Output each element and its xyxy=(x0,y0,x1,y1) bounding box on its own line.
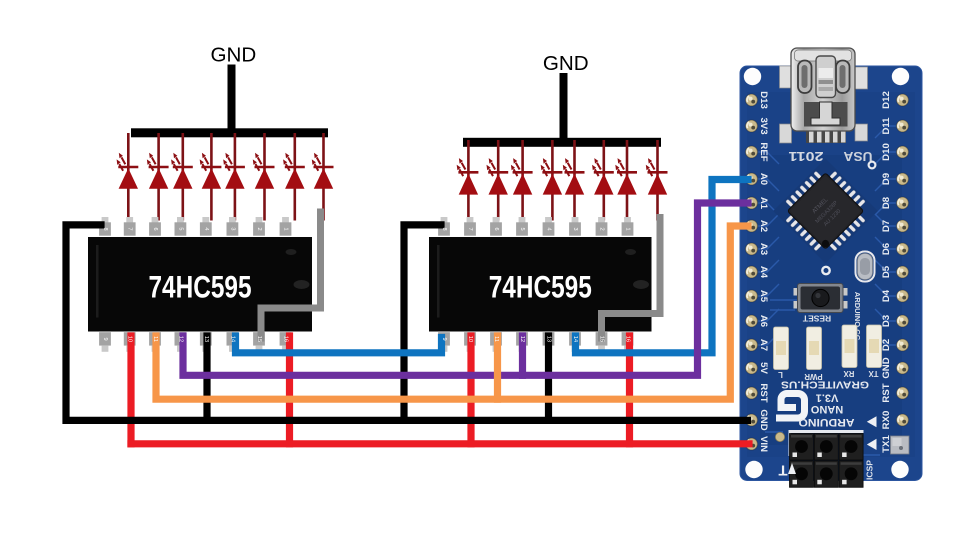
Arduino pad D9 (right) xyxy=(896,172,909,185)
Arduino pad A4 xyxy=(745,265,758,278)
svg-text:D6: D6 xyxy=(881,243,892,255)
svg-text:D13: D13 xyxy=(758,91,769,109)
svg-text:15: 15 xyxy=(256,336,262,342)
svg-text:5: 5 xyxy=(177,227,183,230)
svg-text:RESET: RESET xyxy=(802,314,831,324)
U2 pin 13 (bottom) xyxy=(543,332,555,352)
U2 pin 16 (bottom) xyxy=(622,332,634,352)
LED D14 xyxy=(592,140,614,221)
Arduino mounting hole xyxy=(891,461,908,478)
Arduino pad GND (right) xyxy=(896,361,909,374)
svg-text:D4: D4 xyxy=(881,289,892,302)
indicator component RX xyxy=(842,325,857,368)
wire: latch bus U1 pin 12 to Arduino A1 xyxy=(183,203,748,375)
wire: V+ bus to Arduino VIN xyxy=(131,440,749,447)
svg-text:USA: USA xyxy=(844,149,873,163)
U1 pin 9 (bottom) xyxy=(99,332,111,352)
svg-text:T: T xyxy=(778,462,787,479)
svg-text:VIN: VIN xyxy=(758,436,769,452)
wire: GND stem xyxy=(560,73,568,143)
indicator component L xyxy=(774,327,789,370)
ICSP pin 3 xyxy=(839,434,863,461)
svg-text:74HC595: 74HC595 xyxy=(149,269,252,305)
svg-text:GRAVITECH.US: GRAVITECH.US xyxy=(781,379,869,390)
ICSP pin 4 xyxy=(790,461,814,488)
svg-text:11: 11 xyxy=(152,336,158,342)
svg-text:D12: D12 xyxy=(881,91,892,109)
svg-text:5: 5 xyxy=(519,227,525,230)
U2 pin 9 (bottom) xyxy=(438,332,450,352)
svg-text:D11: D11 xyxy=(881,117,892,135)
svg-text:4: 4 xyxy=(203,227,209,230)
LED D10 xyxy=(487,140,509,221)
Arduino pad REF xyxy=(745,145,758,158)
wire: U1 QH (LED8) to U1 pin 15 xyxy=(261,212,321,338)
wire: U2 QH (LED8) to U2 pin 15 xyxy=(602,218,661,339)
via near chip xyxy=(869,162,876,169)
Arduino mounting hole xyxy=(745,461,762,478)
ICSP pin 1 xyxy=(790,434,814,461)
svg-text:A6: A6 xyxy=(758,315,769,327)
Arduino mounting hole xyxy=(892,68,909,85)
indicator component TX xyxy=(867,325,882,368)
LED D6 xyxy=(253,133,275,221)
svg-text:ICSP: ICSP xyxy=(865,460,875,480)
LED D8 xyxy=(312,133,334,221)
via below chip xyxy=(822,267,829,274)
U2 pin 8 (top) xyxy=(438,217,450,236)
wire: GND stem xyxy=(228,65,236,134)
svg-text:1: 1 xyxy=(625,227,631,230)
svg-text:ARDUINO: ARDUINO xyxy=(798,416,854,428)
Arduino pad D10 (right) xyxy=(896,145,909,158)
svg-text:REF: REF xyxy=(758,142,769,161)
svg-text:8: 8 xyxy=(441,227,447,230)
svg-text:1: 1 xyxy=(283,227,289,230)
svg-text:A5: A5 xyxy=(758,290,769,303)
svg-text:2: 2 xyxy=(599,227,605,230)
Gravitech G logo xyxy=(780,394,805,419)
Arduino pad A0 xyxy=(745,172,758,185)
Arduino pad D3 (right) xyxy=(896,314,909,327)
svg-text:10: 10 xyxy=(467,336,473,342)
svg-text:10: 10 xyxy=(127,336,133,342)
svg-text:12: 12 xyxy=(177,336,183,342)
wire: U1 pin 16 VCC drop xyxy=(127,336,134,444)
Arduino mounting hole xyxy=(744,68,761,85)
svg-text:2: 2 xyxy=(256,227,262,230)
U2 pin 4 (top) xyxy=(543,217,555,236)
wire: U1 pin 14 to U2 pin 9 (cascade) xyxy=(236,336,442,353)
Arduino pad 5V xyxy=(745,361,758,374)
MCU ATmega328 chip xyxy=(773,159,878,264)
crystal oscillator xyxy=(856,252,875,282)
U2 pin 10 (bottom) xyxy=(464,332,476,352)
svg-text:12: 12 xyxy=(519,336,525,342)
U1 pin 1 (top) xyxy=(280,217,292,236)
svg-text:7: 7 xyxy=(127,227,133,230)
svg-text:9: 9 xyxy=(441,337,447,340)
LED D7 xyxy=(283,133,305,221)
Arduino pad D12 (right) xyxy=(896,93,909,106)
LED D15 xyxy=(615,140,637,221)
svg-text:D2: D2 xyxy=(881,339,892,351)
U1 pin 13 (bottom) xyxy=(200,332,212,352)
ICSP pin 6 xyxy=(839,461,863,488)
svg-text:9: 9 xyxy=(102,337,108,340)
Arduino pad D6 (right) xyxy=(896,242,909,255)
IC U2 74HC595 body xyxy=(429,237,652,332)
U2 pin 12 (bottom) xyxy=(516,332,528,352)
U2 pin 14 (bottom) xyxy=(569,332,581,352)
svg-text:14: 14 xyxy=(229,336,235,342)
svg-text:16: 16 xyxy=(283,336,289,342)
wire: U2 pin 12 branch xyxy=(519,336,526,375)
LED D2 xyxy=(147,133,169,221)
U1 pin 7 (top) xyxy=(124,217,136,236)
svg-text:3V3: 3V3 xyxy=(758,117,769,134)
ICSP header outline xyxy=(789,430,864,433)
svg-text:GND: GND xyxy=(211,44,257,67)
U2 pin 7 (top) xyxy=(464,217,476,236)
svg-text:A2: A2 xyxy=(758,220,769,232)
Arduino pad VIN xyxy=(745,437,758,450)
wire: U2 pin 8 GND elbow xyxy=(404,225,441,421)
svg-text:A0: A0 xyxy=(758,173,769,185)
svg-text:GND: GND xyxy=(881,357,892,378)
PCB traces xyxy=(757,126,897,455)
wire: U1 pin 8 GND elbow + bus to Arduino GND xyxy=(66,225,748,421)
Arduino pad TX1 (right) xyxy=(896,437,909,450)
wire: U1 pin 10 drop xyxy=(286,336,293,444)
marker triangle TX xyxy=(867,439,877,450)
indicator component PWR xyxy=(807,327,822,370)
mini-USB connector xyxy=(780,48,868,143)
svg-text:6: 6 xyxy=(493,227,499,230)
svg-text:3: 3 xyxy=(229,227,235,230)
svg-text:D8: D8 xyxy=(881,196,892,209)
Arduino pad RX0 (right) xyxy=(896,413,909,426)
svg-text:RST: RST xyxy=(881,383,892,402)
svg-text:D5: D5 xyxy=(881,265,892,278)
U1 pin 5 (top) xyxy=(175,217,187,236)
svg-text:GND: GND xyxy=(543,52,589,75)
svg-text:TX: TX xyxy=(868,369,879,378)
Arduino pad A2 xyxy=(745,219,758,232)
U2 pin 3 (top) xyxy=(569,217,581,236)
svg-text:6: 6 xyxy=(152,227,158,230)
U1 pin 8 (top) xyxy=(99,217,111,236)
Arduino pad A7 xyxy=(745,338,758,351)
LED D1 xyxy=(117,133,139,221)
svg-text:NANO: NANO xyxy=(810,403,843,415)
svg-text:RST: RST xyxy=(758,383,769,402)
Arduino pad D2 (right) xyxy=(896,338,909,351)
U1 pin 11 (bottom) xyxy=(149,332,161,352)
LED D16 xyxy=(646,140,668,221)
Arduino pad A6 xyxy=(745,314,758,327)
LED D5 xyxy=(223,133,245,221)
svg-text:8: 8 xyxy=(102,227,108,230)
Arduino pad A3 xyxy=(745,242,758,255)
Arduino pad GND xyxy=(745,413,758,426)
U2 pin 5 (top) xyxy=(516,217,528,236)
Arduino pad 3V3 xyxy=(745,119,758,132)
U1 pin 6 (top) xyxy=(149,217,161,236)
reset button xyxy=(794,284,848,313)
LED D3 xyxy=(171,133,193,221)
marker triangle RX xyxy=(867,416,877,427)
svg-text:V3.1: V3.1 xyxy=(816,392,839,404)
U2 pin 2 (top) xyxy=(596,217,608,236)
svg-text:A3: A3 xyxy=(758,243,769,255)
svg-text:16: 16 xyxy=(625,336,631,342)
svg-text:RX0: RX0 xyxy=(881,411,892,430)
ICSP pin 2 xyxy=(814,434,838,461)
wire: U2 pin 14 to Arduino A0 xyxy=(576,180,749,353)
svg-text:L: L xyxy=(778,370,783,379)
svg-text:2011: 2011 xyxy=(788,149,823,163)
svg-text:GND: GND xyxy=(758,409,769,430)
U2 pin 1 (top) xyxy=(622,217,634,236)
svg-text:4: 4 xyxy=(546,227,552,230)
Arduino pad D5 (right) xyxy=(896,265,909,278)
svg-text:D3: D3 xyxy=(881,315,892,327)
svg-text:15: 15 xyxy=(599,336,605,342)
wire: U2 pin 11 branch xyxy=(494,336,501,399)
wire: U1 pin 13 to GND bus xyxy=(203,336,210,417)
svg-text:14: 14 xyxy=(572,336,578,342)
Arduino pad A5 xyxy=(745,289,758,302)
svg-text:A4: A4 xyxy=(758,266,769,279)
svg-text:A1: A1 xyxy=(758,197,769,210)
ICSP pin 5 xyxy=(814,461,838,488)
U1 pin 10 (bottom) xyxy=(124,332,136,352)
U2 pin 15 (bottom) xyxy=(596,332,608,352)
LED D9 xyxy=(457,140,479,221)
Arduino pad D11 (right) xyxy=(896,119,909,132)
solder tab TX1 xyxy=(891,436,910,454)
Arduino pad D7 (right) xyxy=(896,219,909,232)
Arduino pad A1 xyxy=(745,196,758,209)
IC U1 74HC595 body xyxy=(88,237,312,332)
wire: GND bus bar xyxy=(463,138,661,147)
svg-text:74HC595: 74HC595 xyxy=(489,269,592,305)
svg-text:13: 13 xyxy=(203,336,209,342)
U1 pin 4 (top) xyxy=(200,217,212,236)
Arduino pad D4 (right) xyxy=(896,289,909,302)
U2 pin 6 (top) xyxy=(490,217,502,236)
U1 pin 3 (top) xyxy=(227,217,239,236)
svg-text:A7: A7 xyxy=(758,339,769,351)
Arduino pad RST (right) xyxy=(896,386,909,399)
U1 pin 12 (bottom) xyxy=(175,332,187,352)
U1 pin 14 (bottom) xyxy=(227,332,239,352)
Arduino pad D8 (right) xyxy=(896,196,909,209)
svg-text:RX: RX xyxy=(843,369,855,378)
wire: clock bus U1 pin 11 to Arduino A2 xyxy=(156,226,748,399)
wire: U2 pin 10 drop xyxy=(626,336,633,444)
svg-text:D7: D7 xyxy=(881,220,892,232)
U2 pin 11 (bottom) xyxy=(490,332,502,352)
Arduino pad RST xyxy=(745,386,758,399)
wire: U2 pin 13 to GND bus xyxy=(545,336,552,417)
Arduino pad D13 xyxy=(745,93,758,106)
svg-text:D9: D9 xyxy=(881,173,892,185)
U1 pin 16 (bottom) xyxy=(280,332,292,352)
LED D4 xyxy=(200,133,222,221)
Arduino Nano board xyxy=(740,66,922,481)
svg-text:D10: D10 xyxy=(881,143,892,161)
svg-text:3: 3 xyxy=(572,227,578,230)
LED D12 xyxy=(541,140,563,221)
wire: GND bus bar xyxy=(131,128,328,137)
U1 pin 2 (top) xyxy=(253,217,265,236)
svg-text:7: 7 xyxy=(467,227,473,230)
svg-text:5V: 5V xyxy=(758,362,769,374)
svg-text:13: 13 xyxy=(546,336,552,342)
wire: U2 pin 16 VCC drop xyxy=(467,336,474,444)
LED D13 xyxy=(563,140,585,221)
gold via near ICSP xyxy=(775,432,784,441)
svg-text:11: 11 xyxy=(493,336,499,342)
U1 pin 15 (bottom) xyxy=(253,332,265,352)
LED D11 xyxy=(511,140,533,221)
